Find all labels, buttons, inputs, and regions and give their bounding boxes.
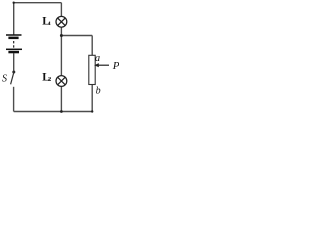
svg-text:a: a (95, 53, 100, 64)
svg-text:S: S (2, 74, 7, 85)
svg-text:1: 1 (48, 21, 51, 27)
svg-text:2: 2 (48, 76, 51, 83)
svg-text:P: P (112, 60, 119, 72)
svg-text:b: b (96, 85, 101, 96)
